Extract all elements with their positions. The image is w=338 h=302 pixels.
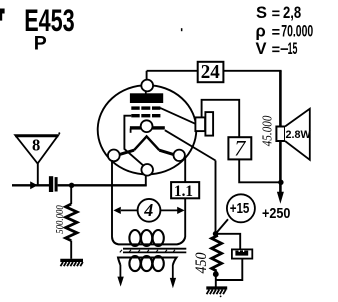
wire triangle lead — [37, 162, 39, 185]
speaker box — [276, 127, 285, 142]
svg-text:2.8W: 2.8W — [286, 129, 312, 141]
wire bypass cap return — [216, 259, 243, 280]
terminal triangle 8 — [15, 135, 58, 163]
svg-text:=: = — [272, 43, 280, 59]
svg-text:+250: +250 — [262, 206, 290, 222]
node grid junction — [69, 183, 74, 188]
svg-text:8: 8 — [32, 136, 40, 155]
wire anode to top pin — [145, 91, 147, 94]
grid g1 dashes — [131, 114, 160, 117]
wire box7 to rail — [239, 159, 280, 182]
heater filament — [119, 150, 134, 154]
wire input — [12, 184, 49, 186]
grid g2 dashes — [131, 106, 160, 109]
wire g2 to side cap — [160, 108, 196, 124]
box 1.1 A — [171, 182, 199, 198]
cathode bar right — [152, 126, 164, 129]
svg-text:15: 15 — [288, 40, 298, 58]
svg-text:1.1: 1.1 — [174, 183, 193, 200]
svg-text:E453: E453 — [24, 2, 74, 38]
capacitor bypass box — [232, 249, 252, 258]
wire cap to box7 — [202, 100, 240, 137]
box 7 mA — [228, 137, 251, 159]
capacitor C1 plate right — [55, 177, 58, 191]
capacitor C1 plate left — [49, 176, 53, 192]
label rho = 70.000 — [256, 23, 314, 42]
transformer primary winding — [112, 237, 185, 244]
wire box24 to rail — [223, 70, 281, 72]
wire cathode diagonal — [165, 130, 216, 160]
cathode bar left — [130, 126, 141, 129]
label V = -15 — [256, 40, 298, 59]
svg-text:P: P — [34, 33, 47, 55]
svg-text:=: = — [272, 25, 280, 41]
wire anode top run — [147, 70, 198, 72]
node cathode junction — [213, 231, 219, 237]
svg-text:=: = — [272, 7, 280, 23]
label S = 2,8 — [256, 4, 301, 23]
box 24 mA — [198, 62, 224, 82]
pin left — [108, 150, 120, 162]
wire +250 rail — [279, 71, 282, 194]
pin top — [141, 80, 153, 92]
svg-text:2,8: 2,8 — [283, 4, 301, 22]
wire to bypass cap — [218, 234, 241, 250]
wire to +15 circle — [217, 219, 228, 232]
node R450 bottom — [213, 271, 219, 277]
svg-text:70.000: 70.000 — [281, 23, 313, 41]
side cap contact — [195, 117, 205, 131]
svg-text:24: 24 — [201, 61, 220, 83]
node rail junction — [278, 180, 283, 185]
resistor 450 — [212, 234, 222, 271]
transformer secondary winding — [118, 258, 177, 266]
wire g1 lead — [124, 116, 144, 167]
circle +15 — [227, 194, 255, 222]
svg-text:4: 4 — [143, 200, 153, 220]
svg-text:+15: +15 — [230, 200, 250, 217]
wire g1 pin down — [145, 175, 147, 186]
circle 4 V heater — [138, 199, 161, 222]
wire heater leg left — [111, 160, 113, 237]
svg-text:7: 7 — [234, 136, 246, 161]
svg-text:450: 450 — [193, 253, 210, 274]
wire heater leg right — [184, 159, 186, 238]
pin right — [174, 150, 185, 161]
svg-text:ρ: ρ — [256, 23, 266, 41]
wire grid — [58, 184, 147, 186]
input arrow — [30, 181, 37, 189]
svg-text:S: S — [256, 4, 267, 22]
anode plate bar — [130, 93, 163, 103]
svg-text:45.000: 45.000 — [259, 115, 274, 146]
pin bottom g1 — [141, 164, 153, 176]
wire cathode down — [215, 161, 217, 233]
svg-text:500.000: 500.000 — [55, 205, 66, 234]
wire arrow left — [121, 209, 138, 211]
speaker horn — [285, 109, 310, 160]
speck — [181, 28, 183, 31]
tube E453 envelope — [98, 85, 197, 174]
ground left — [60, 260, 83, 266]
ground right — [206, 288, 227, 297]
wire to R 500.000 — [70, 186, 72, 204]
wire R to ground — [70, 241, 72, 259]
resistor 500.000 — [66, 204, 77, 241]
page edge mark — [0, 9, 5, 14]
wire arrow right — [160, 209, 177, 211]
svg-text:V: V — [256, 40, 267, 58]
cathode circle — [141, 120, 153, 132]
wire mains right — [172, 265, 174, 279]
transformer core — [123, 248, 186, 250]
wire top pin up — [146, 71, 148, 79]
rail arrow — [277, 192, 284, 204]
wire to ground right — [215, 274, 217, 288]
wire mains left — [119, 265, 121, 278]
